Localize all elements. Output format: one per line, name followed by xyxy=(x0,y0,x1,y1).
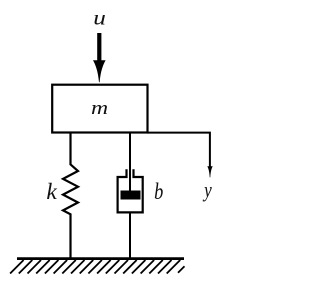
svg-text:y: y xyxy=(202,178,212,203)
svg-text:b: b xyxy=(154,178,163,205)
svg-text:k: k xyxy=(46,179,57,205)
svg-text:u: u xyxy=(93,6,106,30)
svg-text:m: m xyxy=(91,97,108,118)
